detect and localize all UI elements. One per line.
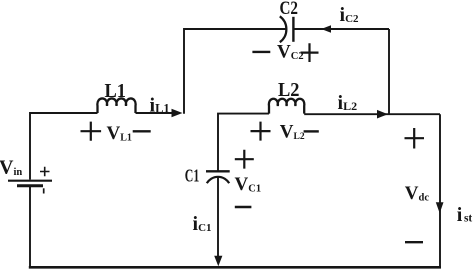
- inductor L1: [97, 98, 135, 113]
- plus sign VC2: [301, 43, 319, 62]
- wire L1 to node A: [136, 112, 177, 114]
- capacitor C2 straight plate: [292, 17, 294, 42]
- wire left rail top segment: [30, 113, 98, 180]
- capacitor C2 curved plate: [280, 16, 287, 42]
- capacitor C1 straight plate: [206, 170, 230, 172]
- svg-text:L2: L2: [278, 79, 300, 101]
- minus sign VL2: [304, 130, 319, 132]
- plus sign VL1: [81, 122, 102, 141]
- wire drop from top rail to node D: [388, 29, 390, 115]
- current arrow iL1: [172, 109, 183, 118]
- svg-text:L1: L1: [105, 80, 127, 102]
- battery Vin short plate: [17, 184, 43, 187]
- current arrow iC1: [214, 256, 222, 266]
- wire L2 to node D and right rail top: [304, 113, 440, 115]
- current arrow ist: [436, 202, 444, 213]
- svg-text:C1: C1: [185, 166, 200, 186]
- minus sign VC2: [252, 51, 270, 53]
- minus sign VC1: [235, 206, 252, 208]
- minus sign VL1: [133, 130, 151, 132]
- capacitor C1 curved plate: [207, 177, 229, 183]
- plus sign Vdc: [405, 128, 425, 149]
- svg-text:C2: C2: [280, 0, 299, 19]
- minus sign Vdc: [405, 241, 423, 243]
- current arrow iC2: [321, 25, 331, 33]
- wire left rail bottom segment: [29, 187, 31, 267]
- wire top rail right of C2: [293, 28, 389, 30]
- battery plus polarity mark: [40, 167, 50, 176]
- wire C1 to bottom rail: [217, 177, 219, 258]
- plus sign VL2: [251, 122, 271, 141]
- wire node A riser: [184, 29, 286, 114]
- plus sign VC1: [235, 150, 254, 169]
- current arrow iL2: [377, 110, 388, 119]
- wire right rail: [439, 114, 441, 267]
- wire node B corner: [218, 114, 269, 171]
- battery minus tick: [43, 188, 45, 193]
- battery Vin long plate: [8, 180, 52, 182]
- inductor L2: [269, 99, 304, 114]
- wire bottom rail: [29, 266, 441, 269]
